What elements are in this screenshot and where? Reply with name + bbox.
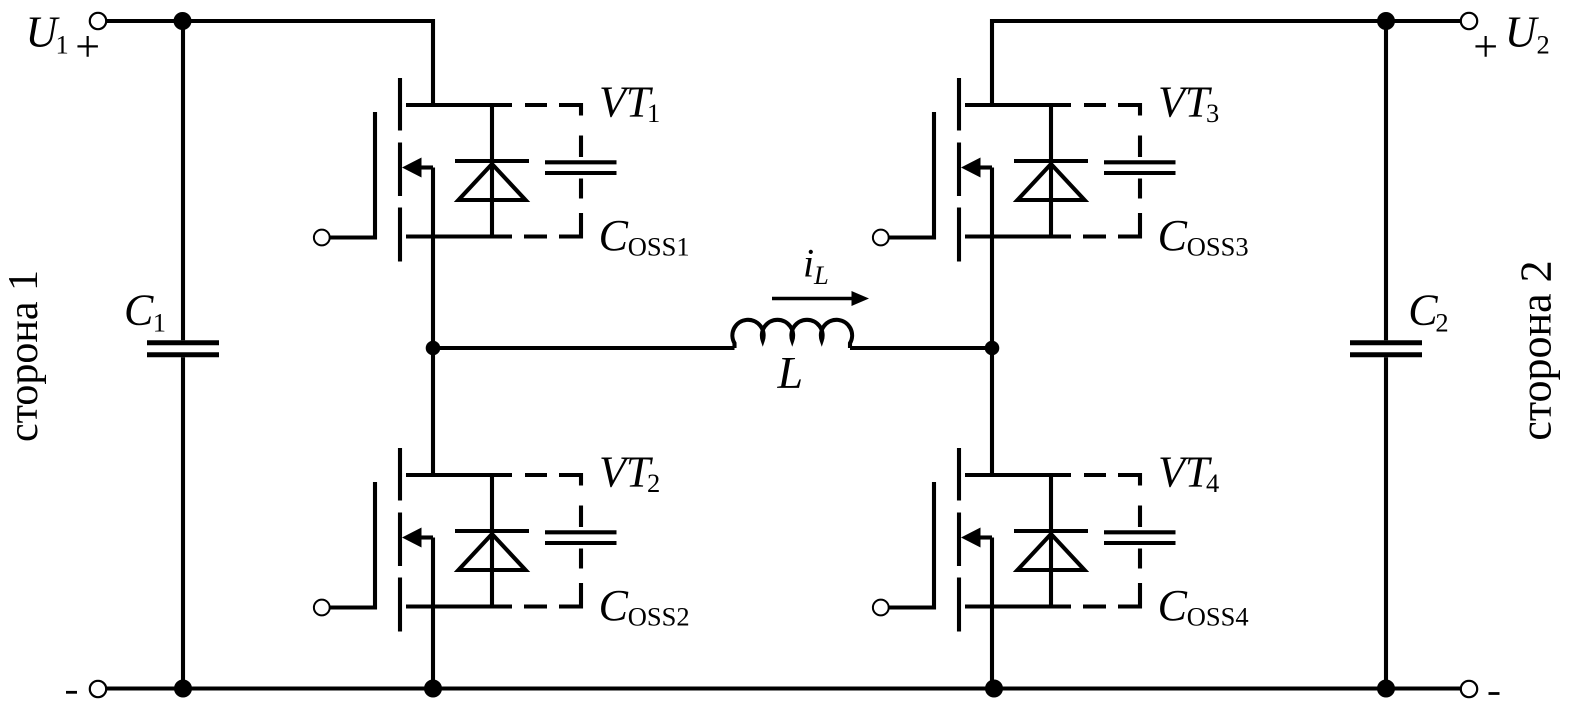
svg-text:VT: VT — [1158, 78, 1213, 127]
svg-text:OSS2: OSS2 — [628, 602, 690, 632]
svg-text:C: C — [124, 286, 154, 335]
svg-text:VT: VT — [1158, 448, 1213, 497]
svg-text:4: 4 — [1206, 468, 1219, 498]
svg-text:OSS1: OSS1 — [628, 232, 690, 262]
svg-text:OSS3: OSS3 — [1187, 232, 1249, 262]
svg-text:1: 1 — [56, 30, 69, 60]
svg-text:C: C — [1158, 581, 1188, 630]
svg-text:OSS4: OSS4 — [1187, 602, 1249, 632]
svg-text:+: + — [75, 22, 100, 71]
svg-text:C: C — [1158, 211, 1188, 260]
svg-text:сторона 2: сторона 2 — [1512, 260, 1561, 440]
svg-text:i: i — [803, 241, 814, 286]
svg-text:3: 3 — [1206, 98, 1219, 128]
svg-text:L: L — [777, 347, 804, 398]
svg-text:C: C — [1408, 286, 1438, 335]
svg-text:+: + — [1473, 22, 1498, 71]
svg-text:1: 1 — [647, 98, 660, 128]
svg-text:U: U — [1505, 7, 1540, 56]
svg-text:2: 2 — [647, 468, 660, 498]
svg-text:C: C — [599, 211, 629, 260]
svg-text:1: 1 — [153, 307, 166, 337]
svg-text:VT: VT — [599, 448, 654, 497]
svg-text:сторона 1: сторона 1 — [1, 270, 47, 442]
svg-text:VT: VT — [599, 78, 654, 127]
svg-text:2: 2 — [1537, 30, 1550, 60]
svg-text:L: L — [813, 260, 829, 290]
svg-text:C: C — [599, 581, 629, 630]
svg-text:2: 2 — [1435, 307, 1448, 337]
